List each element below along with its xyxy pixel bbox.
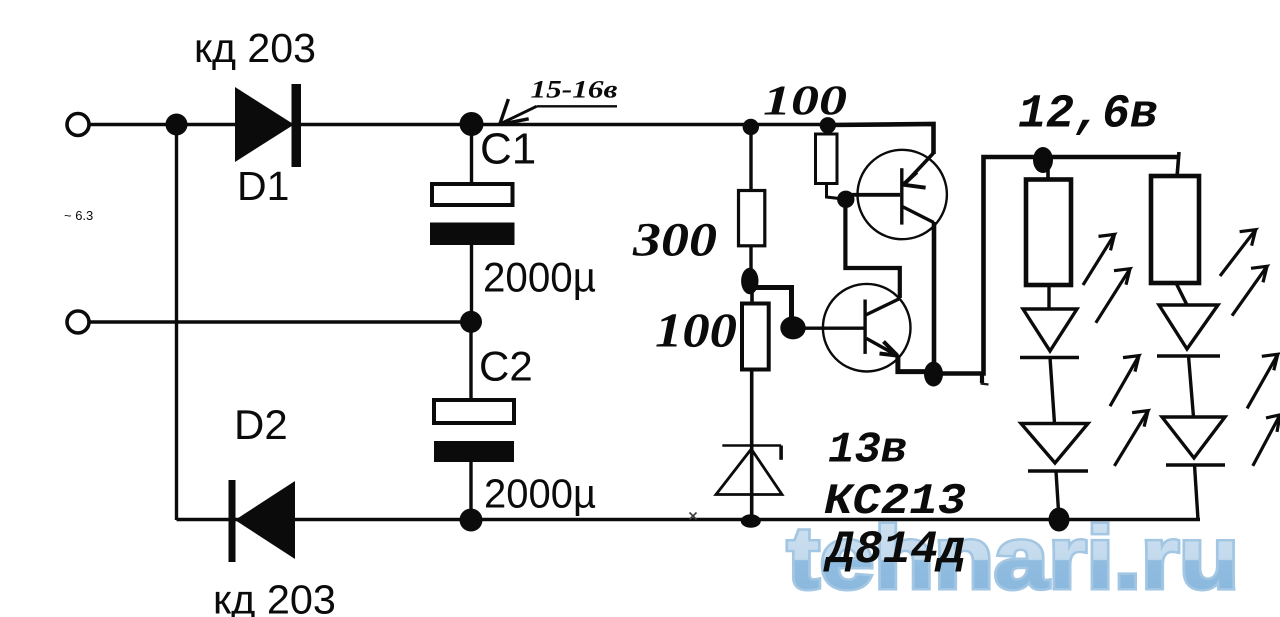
callout arrow 15-16в xyxy=(500,99,617,124)
LED arrows D3 xyxy=(1083,234,1130,322)
svg-text:D1: D1 xyxy=(237,163,289,209)
svg-text:2000µ: 2000µ xyxy=(483,254,596,301)
resistor R1 300 xyxy=(739,125,765,276)
svg-text:100: 100 xyxy=(655,303,737,358)
terminal input top xyxy=(67,114,89,136)
svg-text:12,6в: 12,6в xyxy=(1018,89,1158,142)
wire Q2 emitter to output node xyxy=(898,355,934,372)
watermark tehnari.ru xyxy=(787,508,1239,607)
transistor Q1 xyxy=(858,150,947,239)
svg-text:C2: C2 xyxy=(479,343,533,390)
wire stub below LED-rail corner xyxy=(980,374,984,384)
capacitor C2 xyxy=(434,322,514,520)
LED arrows D6 xyxy=(1247,354,1280,466)
resistor R3 100 xyxy=(742,290,769,521)
diode D1 xyxy=(235,84,301,167)
node junction Q2 base xyxy=(780,316,805,339)
wire top rail xyxy=(89,123,830,127)
wire bottom rail xyxy=(177,518,1201,522)
wire left vertical xyxy=(175,125,178,521)
node junction 300-100 xyxy=(741,268,758,295)
wire mid rail xyxy=(89,320,471,323)
svg-text:100: 100 xyxy=(763,79,847,125)
node junction Q1 base xyxy=(837,191,854,208)
LED arrows D4 xyxy=(1110,356,1148,466)
node junction LED bottom xyxy=(1049,508,1070,532)
wire Q2 base lead xyxy=(793,327,864,330)
wire Q1 base lead xyxy=(846,193,900,197)
transistor Q2 xyxy=(823,284,911,372)
resistor R5 LED2 xyxy=(1151,152,1199,306)
svg-text:КС213: КС213 xyxy=(824,477,966,527)
svg-text:C1: C1 xyxy=(480,125,536,174)
terminal input bottom xyxy=(67,311,89,333)
svg-text:13в: 13в xyxy=(828,426,907,476)
capacitor C1 xyxy=(430,124,515,322)
zener diode VD1 xyxy=(716,446,782,495)
LED D3 xyxy=(1020,309,1079,424)
node junction 300 top xyxy=(743,119,759,135)
node junction 100 top xyxy=(820,117,836,133)
node junction output xyxy=(924,362,943,387)
svg-text:Д814д: Д814д xyxy=(823,524,966,576)
node junction C2 bottom xyxy=(460,509,483,532)
resistor R4 LED1 xyxy=(1026,159,1071,310)
svg-text:300: 300 xyxy=(632,214,717,267)
wire output to LED block xyxy=(934,157,1180,374)
LED D4 xyxy=(1021,424,1088,520)
svg-text:15-16в: 15-16в xyxy=(531,77,618,104)
node junction LED rail xyxy=(1033,147,1053,173)
svg-text:D2: D2 xyxy=(234,401,288,448)
svg-text:кд 203: кд 203 xyxy=(194,25,316,71)
wire divider tap to Q2 base xyxy=(751,288,792,328)
svg-text:2000µ: 2000µ xyxy=(484,471,596,517)
LED D6 xyxy=(1162,417,1225,520)
node junction C1 top xyxy=(460,112,484,136)
artifact x mark on bottom wire xyxy=(690,513,697,520)
diode D2 xyxy=(229,480,296,562)
LED arrows D5 xyxy=(1220,230,1267,316)
node junction mid xyxy=(460,311,482,333)
svg-text:кд 203: кд 203 xyxy=(213,577,336,617)
wire Q1 base to Q2 collector xyxy=(845,199,899,298)
wire Q1 emitter down xyxy=(932,222,937,374)
resistor R2 100 xyxy=(816,125,846,200)
svg-text:~ 6.3: ~ 6.3 xyxy=(64,208,93,223)
node junction zener bottom xyxy=(741,514,761,528)
wire top rail thick to Q1 collector xyxy=(828,124,934,154)
artifact dash near output corner xyxy=(981,384,989,385)
node junction top-left xyxy=(166,114,188,136)
LED D5 xyxy=(1157,305,1220,417)
